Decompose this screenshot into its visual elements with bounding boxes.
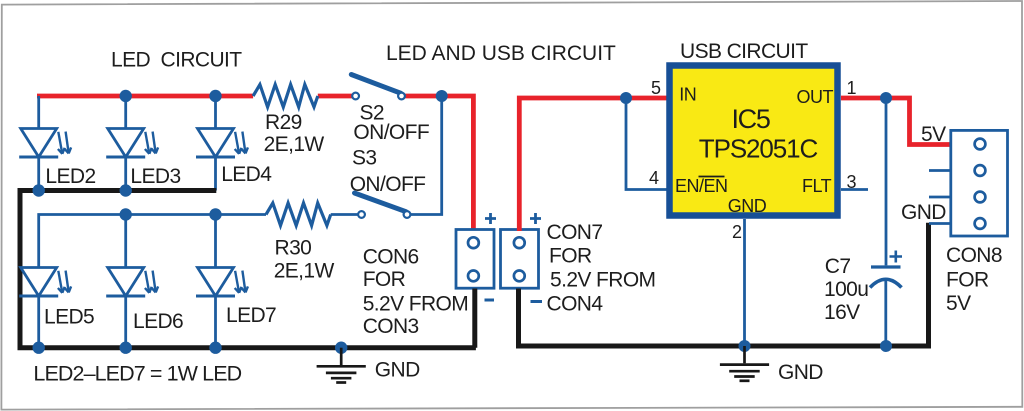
svg-text:ON/OFF: ON/OFF xyxy=(353,121,429,144)
wire: EN connection from IN junction xyxy=(626,98,667,190)
svg-text:2E,1W: 2E,1W xyxy=(264,133,325,156)
svg-text:2: 2 xyxy=(732,222,742,242)
wire: row1 black cathode rail + left return + bottom rail xyxy=(20,191,476,348)
svg-text:TPS2051C: TPS2051C xyxy=(699,134,818,164)
svg-text:OUT: OUT xyxy=(797,87,834,107)
wire: OUT red to CON8 xyxy=(841,98,951,145)
node: ground junction on LED rail xyxy=(335,342,347,354)
svg-text:LED AND USB CIRCUIT: LED AND USB CIRCUIT xyxy=(386,42,616,65)
svg-text:GND: GND xyxy=(778,361,823,384)
ground symbol (USB circuit) xyxy=(720,346,769,381)
svg-text:R30: R30 xyxy=(275,236,312,259)
connector CON7 xyxy=(501,230,539,289)
svg-text:FOR: FOR xyxy=(549,245,592,268)
minus sign CON6 xyxy=(485,299,495,302)
node: LED3 cathode junction xyxy=(120,184,132,196)
svg-text:IN: IN xyxy=(679,84,696,104)
minus sign CON7 xyxy=(531,300,543,303)
plus sign CON7 xyxy=(530,213,541,224)
svg-text:FOR: FOR xyxy=(946,269,989,292)
LED2 xyxy=(19,96,71,191)
resistor R30 xyxy=(266,203,331,226)
svg-text:S3: S3 xyxy=(352,147,377,170)
svg-text:LED2: LED2 xyxy=(45,165,95,188)
wire: row1 positive red rail left segment xyxy=(37,94,253,99)
node: LED6 anode junction xyxy=(120,208,132,220)
svg-text:CON6: CON6 xyxy=(363,246,419,269)
wire: C7 top connection xyxy=(885,98,888,265)
capacitor C7 xyxy=(870,267,902,346)
svg-text:1: 1 xyxy=(847,78,857,98)
svg-text:IC5: IC5 xyxy=(731,104,769,134)
svg-text:LED CIRCUIT: LED CIRCUIT xyxy=(111,49,242,72)
resistor R29 xyxy=(253,85,318,108)
svg-text:CON3: CON3 xyxy=(363,315,419,338)
node: LED7 anode junction xyxy=(209,208,221,220)
LED7 xyxy=(196,215,248,348)
connector CON6 xyxy=(456,230,494,289)
svg-text:FLT: FLT xyxy=(802,176,832,196)
wire: blue from S3 output up to S2 junction xyxy=(411,96,442,215)
node: LED2 cathode junction xyxy=(33,184,45,196)
switch S2 xyxy=(351,75,405,100)
ground symbol (LED circuit) xyxy=(317,348,366,383)
svg-text:LED6: LED6 xyxy=(133,310,183,333)
node: LED4 anode junction xyxy=(209,90,221,102)
node: LED3 anode junction xyxy=(120,90,132,102)
svg-text:2E,1W: 2E,1W xyxy=(274,259,335,282)
svg-text:ON/OFF: ON/OFF xyxy=(350,173,426,196)
svg-text:R29: R29 xyxy=(265,111,302,134)
plus sign C7 xyxy=(890,251,903,263)
wire: IC GND pin down to rail xyxy=(743,219,746,346)
svg-text:GND: GND xyxy=(728,196,767,216)
node: LED6 cathode junction xyxy=(120,342,132,354)
svg-text:LED5: LED5 xyxy=(44,306,94,329)
plus sign CON6 xyxy=(485,213,496,224)
LED5 xyxy=(19,268,71,348)
LED6 xyxy=(106,215,158,348)
wire: row2 blue rail with LED5 drop xyxy=(39,215,266,268)
svg-text:5.2V FROM: 5.2V FROM xyxy=(363,292,468,315)
wire: CON8 pin4 stub xyxy=(929,222,951,225)
svg-text:LED2–LED7 = 1W LED: LED2–LED7 = 1W LED xyxy=(33,362,241,386)
wire: CON7 positive red to IC5 IN xyxy=(519,98,667,231)
node: OUT junction xyxy=(880,92,892,104)
svg-text:CON4: CON4 xyxy=(547,293,604,316)
LED4 xyxy=(196,96,248,191)
wire: CON8 pin2 stub xyxy=(929,169,951,172)
wire: R30 to S3 xyxy=(331,213,358,216)
connector CON8 xyxy=(951,130,1008,236)
svg-text:CON8: CON8 xyxy=(946,244,1002,267)
svg-text:FOR: FOR xyxy=(363,268,406,291)
svg-text:LED7: LED7 xyxy=(226,304,276,327)
node: junction after S2 xyxy=(436,90,448,102)
svg-text:USB CIRCUIT: USB CIRCUIT xyxy=(680,40,808,63)
svg-text:4: 4 xyxy=(649,168,659,188)
wire: red rail between R29 and S2 xyxy=(318,94,353,99)
LED3 xyxy=(106,96,158,191)
svg-text:5V: 5V xyxy=(946,292,971,315)
wire: CON7 negative black + USB ground rail + CON8 ground riser xyxy=(519,223,929,346)
svg-text:16V: 16V xyxy=(824,301,860,324)
svg-text:CON7: CON7 xyxy=(547,221,603,244)
svg-text:5V: 5V xyxy=(921,123,946,146)
svg-text:C7: C7 xyxy=(825,255,851,278)
wire: CON6 negative black xyxy=(472,289,477,348)
svg-text:GND: GND xyxy=(901,201,946,224)
node: IC GND junction on rail xyxy=(739,340,751,352)
node: LED7 cathode junction xyxy=(209,342,221,354)
node: C7 ground junction xyxy=(880,340,892,352)
node: junction on IN wire xyxy=(620,92,632,104)
wire: CON8 pin3 stub xyxy=(929,196,951,199)
svg-text:5.2V FROM: 5.2V FROM xyxy=(550,269,655,292)
svg-text:GND: GND xyxy=(375,358,420,381)
node: LED5 cathode junction xyxy=(33,342,45,354)
svg-text:5: 5 xyxy=(651,78,661,98)
switch S3 xyxy=(355,193,411,218)
wire: FLT stub xyxy=(841,188,868,191)
svg-text:100u: 100u xyxy=(824,278,868,301)
wire: red from S2 to CON6 (corner down) xyxy=(405,96,474,231)
svg-text:LED3: LED3 xyxy=(130,165,180,188)
svg-text:EN/EN: EN/EN xyxy=(675,176,728,196)
svg-text:LED4: LED4 xyxy=(221,163,272,186)
IC5 TPS2051C body xyxy=(670,66,838,216)
overline on EN xyxy=(699,176,725,178)
